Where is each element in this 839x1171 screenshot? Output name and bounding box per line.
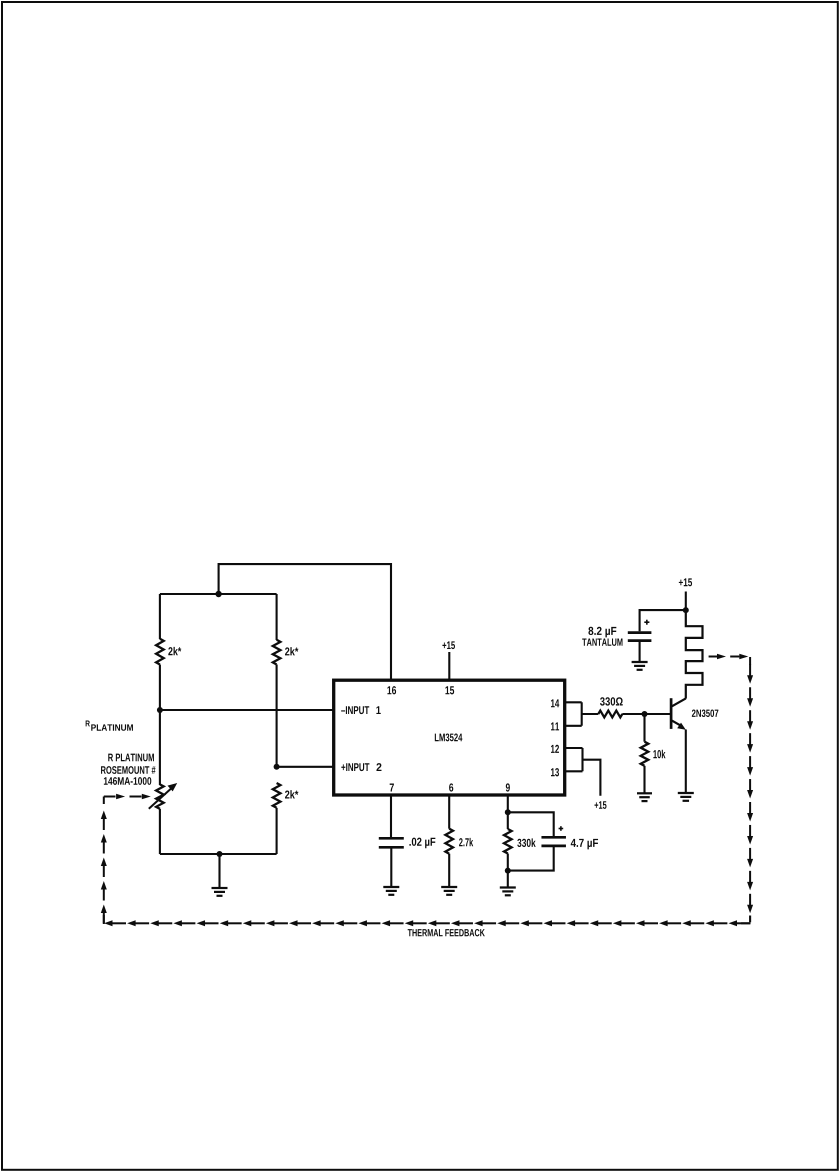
label +15 above pin 15 [442,641,455,649]
ground 2.7k [441,887,457,895]
wire 4.7uF branch [508,812,554,870]
label 4.7uF [571,839,598,849]
wire base node to Q1 [645,713,671,715]
wire 330ohm to base node [622,713,644,715]
label 10k [653,750,665,759]
dashed feedback arrows into R platinum [104,794,151,800]
resistor R-platinum variable [156,784,164,808]
label R PLATINUM ROSEMOUNT # 146MA-1000 [101,754,155,785]
ground emitter [678,793,694,801]
resistor 2k* right bottom [273,783,281,808]
wire right branch upper [276,594,278,640]
pin label 16 [387,686,396,694]
resistor 2.7k [445,829,453,854]
wire pins 12-13 bracket [565,748,583,771]
label R PLATINUM (net name) [86,720,133,730]
label 2k* left [168,647,181,655]
wire base node to 10k [643,714,645,742]
label .02uF [409,838,435,849]
pin label -INPUT 1 [341,706,381,714]
op-amp/PWM IC U1 LM3524 box [334,680,565,795]
resistor 2k* right top [273,640,281,665]
node pin 9 top junction [505,809,511,815]
wire tantalum to ground [639,641,641,662]
label 2k* right top [285,647,298,655]
label 330k [517,838,535,847]
pin label 14 [551,699,559,707]
wire +input node to IC pin 2 [277,766,334,768]
label 2k* right bottom [285,790,298,798]
resistor 2k* left [156,639,164,665]
node junction bridge top [215,591,221,597]
label LM3524 [435,733,463,741]
arrow heat output solid [709,654,726,660]
wire 2.7k to ground [448,854,450,887]
pin label 7 [390,784,394,792]
pin label 13 [551,768,559,776]
label THERMAL FEEDBACK [408,929,485,936]
wire left branch bottom [159,809,161,854]
capacitor .02uF [379,838,404,847]
node pin 9 bottom junction [505,868,511,874]
wire 10k to ground [643,766,645,793]
wire bracket to 330ohm resistor [582,713,599,715]
wire -input node to IC pin 1 [160,709,334,711]
arrow heat output dashed [730,654,748,660]
resistor 330ohm [598,711,622,718]
transistor Q1 2N3507 base bar [670,698,673,729]
pin label 11 [551,722,559,730]
label 8.2uF [588,627,616,638]
wire emitter to ground [685,730,687,793]
node base junction [642,711,648,717]
label 2N3507 [692,709,718,717]
pin label 15 [445,686,454,694]
label +15 below pins 12-13 [595,801,607,809]
wire bridge bottom rail [160,853,277,855]
resistor 10k [641,742,649,766]
ground .02uF [383,887,399,895]
wire right branch to +input node [276,665,278,767]
wire 330k bottom [507,854,509,871]
wire pin9 ground stem [507,871,509,887]
wire pin 9 stub [507,795,509,812]
label + polarity tantalum [644,620,649,625]
label TANTALUM [582,639,622,646]
dashed feedback line right (down arrows) [747,657,753,922]
node +15 junction [683,607,689,613]
transistor Q1 collector [672,698,686,706]
capacitor 8.2uF tantalum [628,633,652,641]
label 330ohm [600,697,623,705]
dashed feedback line left (up arrows) [101,797,107,925]
wire left branch to R platinum [159,710,161,785]
ground pin 9 [500,888,516,896]
wire bracket 12-13 to +15 [583,760,601,796]
label + polarity 4.7uF [559,826,564,831]
wire top rail from bridge to pin 16 [219,564,391,680]
wire pin 15 supply stub [448,652,450,680]
arrow through R platinum (variable) [149,783,177,809]
wire +15 stub to node [685,592,687,611]
wire 330k top [507,812,509,829]
wire +15 node to tantalum cap [640,610,686,631]
wire .02uF to ground [390,847,392,886]
ground tantalum [632,662,648,670]
pin label +INPUT 2 [341,763,381,771]
wire left branch upper [159,594,161,639]
ground bridge [212,888,228,896]
pin label 6 [449,783,453,791]
transistor Q1 emitter with arrow [672,721,686,730]
node bridge bottom junction [217,851,223,857]
wire bridge top rail [160,593,277,595]
resistor 330k [504,829,512,854]
label +15 top right [679,578,692,586]
wire pin 7 stub [390,795,392,838]
dashed feedback line bottom (left arrows) [104,920,751,926]
wire bridge ground stem [218,854,220,887]
wire pins 14-11 bracket [565,702,582,726]
pin label 9 [506,783,510,791]
node +input junction [274,764,280,770]
label 2.7k [459,838,473,846]
pin label 12 [551,745,559,753]
wire pin 6 stub [448,795,450,829]
wire right branch bottom [276,808,278,854]
wire left branch to -input node [159,665,161,711]
heater element (meander) on collector [686,610,703,699]
node -input junction [157,707,163,713]
capacitor 4.7uF [541,837,566,846]
ground 10k [637,793,652,801]
